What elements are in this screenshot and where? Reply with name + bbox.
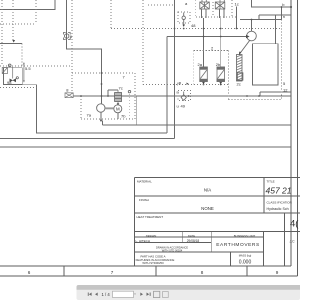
svg-text:0.000: 0.000 — [239, 260, 252, 266]
svg-text:9: 9 — [276, 270, 279, 275]
svg-text:MATERIAL: MATERIAL — [137, 180, 152, 184]
svg-text:49: 49 — [181, 103, 186, 108]
svg-text:8: 8 — [201, 270, 204, 275]
svg-text:29/08/18: 29/08/18 — [187, 239, 200, 243]
svg-text:TITLE: TITLE — [267, 180, 275, 184]
svg-text:1 / 4: 1 / 4 — [102, 292, 111, 297]
svg-text:CLASS IFICATION: CLASS IFICATION — [267, 201, 292, 205]
svg-text:2c: 2c — [237, 82, 241, 87]
svg-text:6: 6 — [28, 270, 31, 275]
svg-text:FINISH: FINISH — [139, 198, 149, 202]
svg-text:n: n — [177, 90, 179, 95]
svg-text:2a: 2a — [198, 62, 203, 67]
svg-text:N/A: N/A — [204, 188, 211, 193]
svg-text:DRAWN: DRAWN — [146, 234, 156, 238]
svg-text:HEAT TREATMENT: HEAT TREATMENT — [137, 215, 164, 219]
svg-text:BUSINESS UNIT: BUSINESS UNIT — [234, 234, 256, 238]
svg-text:L. HITECH: L. HITECH — [136, 239, 151, 243]
svg-text:M: M — [116, 107, 120, 112]
svg-text:12: 12 — [283, 88, 288, 93]
svg-text:98: 98 — [7, 80, 12, 85]
svg-text:5.5: 5.5 — [25, 66, 31, 71]
svg-text:WITH STD00250: WITH STD00250 — [142, 261, 164, 265]
svg-text:7a: 7a — [87, 113, 92, 118]
svg-text:yR: yR — [177, 82, 182, 86]
svg-text:7: 7 — [111, 270, 114, 275]
svg-text:7c: 7c — [119, 86, 123, 91]
svg-text:4(: 4( — [290, 219, 299, 230]
svg-text:DATE: DATE — [188, 234, 195, 238]
svg-text:2b: 2b — [216, 62, 221, 67]
svg-text:48: 48 — [191, 23, 196, 28]
svg-text:n: n — [283, 14, 285, 19]
svg-text:457 21: 457 21 — [266, 186, 292, 196]
svg-text:1c: 1c — [235, 2, 239, 7]
svg-text:MASS (kg): MASS (kg) — [239, 253, 252, 257]
svg-text:J.C: J.C — [289, 240, 295, 244]
svg-text:WITH STD 00024: WITH STD 00024 — [162, 248, 183, 252]
svg-text:7b: 7b — [121, 114, 126, 119]
svg-text:Hydraulic Sch: Hydraulic Sch — [267, 207, 289, 211]
svg-text:NONE: NONE — [201, 206, 214, 211]
svg-text:u: u — [177, 104, 179, 109]
svg-text:EARTHMOVERS: EARTHMOVERS — [216, 242, 260, 248]
